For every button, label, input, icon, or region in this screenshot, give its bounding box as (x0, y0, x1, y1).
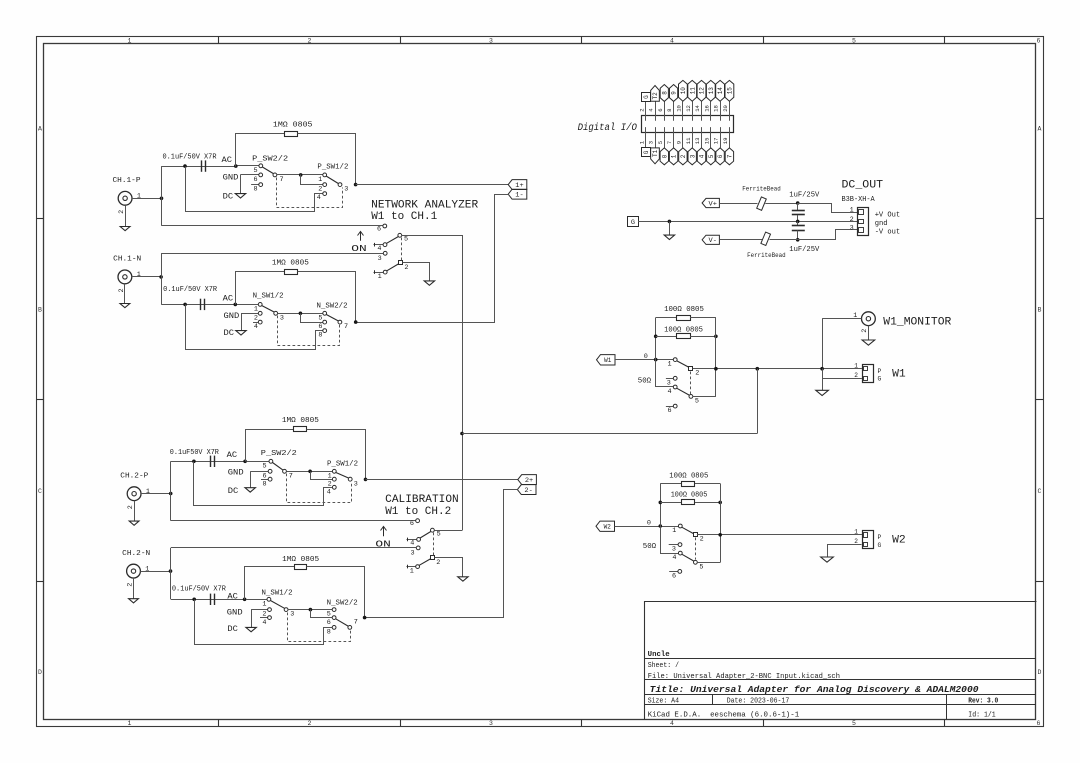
svg-text:2: 2 (127, 583, 135, 587)
svg-text:KiCad E.D.A. eeschema (6.0.6-: KiCad E.D.A. eeschema (6.0.6-1)-1 (648, 712, 800, 720)
svg-text:9: 9 (676, 141, 683, 144)
svg-text:T1: T1 (652, 149, 659, 157)
pin name AC (227, 451, 238, 460)
mechanical link ch2N switches (288, 613, 351, 642)
wire GND bracket ch2N (251, 610, 253, 628)
svg-text:W1 to CH.2: W1 to CH.2 (385, 506, 451, 518)
wire N common down (301, 314, 323, 323)
junction CH.2-P pin1 (169, 492, 173, 496)
svg-text:DC: DC (223, 192, 234, 201)
svg-text:0: 0 (647, 519, 651, 527)
svg-text:DC: DC (224, 329, 235, 338)
svg-text:5: 5 (437, 531, 441, 539)
svg-text:N_SW1/2: N_SW1/2 (253, 293, 284, 301)
wire W1 right rail (715, 318, 717, 397)
svg-text:5: 5 (404, 236, 408, 244)
svg-text:5: 5 (852, 720, 856, 727)
ground (862, 340, 875, 345)
svg-text:C: C (1038, 488, 1042, 495)
text NETWORK ANALYZER (371, 199, 478, 223)
pin name DC (223, 192, 234, 201)
svg-text:6: 6 (377, 226, 381, 234)
title block id (968, 712, 996, 720)
connector W2 body (854, 529, 905, 549)
svg-text:3: 3 (667, 379, 671, 387)
frame column labels (128, 37, 1041, 727)
svg-text:T2: T2 (652, 92, 659, 100)
wire GND bracket ch2P (250, 472, 252, 488)
svg-text:3: 3 (850, 224, 854, 232)
junction ch2N output (363, 616, 367, 620)
svg-text:2: 2 (700, 536, 704, 544)
ground (236, 331, 246, 335)
wire R8 right (695, 502, 720, 504)
connector J pin numbers bottom (638, 137, 729, 144)
svg-text:Id: 1/1: Id: 1/1 (968, 712, 996, 720)
wire SW_W2 pin5 to rail (697, 562, 720, 564)
ferrite bead FB1 (742, 186, 781, 211)
ground (235, 194, 245, 198)
capacitor C2 0.1uF/50V (201, 299, 205, 310)
svg-text:GND: GND (224, 312, 240, 321)
wire P_SW2 common to P_SW1 (277, 174, 323, 176)
svg-text:7: 7 (344, 323, 348, 331)
switch SW_NA ON (351, 224, 408, 281)
hierarchical label 3 (688, 148, 696, 165)
wire R5 right (690, 317, 716, 319)
wire N_SW1 common to N_SW2 (278, 313, 323, 315)
connector DC_OUT body (850, 207, 869, 236)
mechanical link ch2P switches (287, 474, 352, 503)
switch N_SW1/2 (237, 293, 284, 331)
switch P_SW1/2 (ch2) (327, 460, 358, 496)
title block rev (968, 698, 998, 706)
wire R8 left (660, 502, 681, 504)
svg-text:3: 3 (489, 720, 493, 727)
svg-text:50Ω: 50Ω (638, 377, 651, 385)
text CALIBRATION (385, 494, 459, 518)
svg-text:1MΩ 0805: 1MΩ 0805 (282, 417, 319, 425)
svg-text:6: 6 (657, 108, 664, 111)
junction CH.2-P AC pin (243, 460, 247, 464)
svg-text:1-: 1- (515, 192, 523, 200)
connector J pin stubs top (646, 101, 730, 120)
wire W1_MONITOR drop (822, 319, 824, 369)
wire W1 bus horizontal (462, 433, 757, 435)
ground (424, 281, 434, 285)
svg-text:AC: AC (227, 451, 238, 460)
svg-text:1: 1 (328, 472, 332, 480)
svg-text:3: 3 (290, 611, 294, 619)
pin name AC (222, 156, 233, 165)
svg-text:DC: DC (227, 625, 238, 634)
net label W2 (596, 521, 615, 531)
junction V+ at C5 (796, 201, 800, 205)
hierarchical label 12 (697, 80, 706, 101)
svg-text:2: 2 (854, 372, 858, 379)
svg-text:B: B (1038, 306, 1042, 313)
net label V- (702, 235, 719, 245)
ground (821, 557, 834, 562)
svg-text:0: 0 (661, 154, 668, 158)
value label 100Ω 0805 (R6) (664, 327, 703, 335)
svg-text:5: 5 (327, 610, 331, 618)
svg-text:4: 4 (672, 554, 676, 562)
resistor R4 1MΩ (295, 565, 307, 570)
wire R5 left (656, 317, 676, 319)
wire W1 pin2 leg (822, 378, 862, 380)
title block file (648, 673, 840, 681)
wire R1 feedback right (298, 134, 356, 185)
svg-text:C: C (38, 488, 42, 495)
hierarchical label 14 (716, 80, 725, 101)
svg-text:W1: W1 (892, 369, 906, 381)
svg-text:4: 4 (254, 323, 258, 331)
svg-text:1: 1 (853, 312, 857, 320)
connector W1 body (854, 362, 906, 382)
wire R6 right (690, 336, 716, 338)
svg-text:AC: AC (222, 156, 233, 165)
svg-text:NETWORK ANALYZER: NETWORK ANALYZER (371, 199, 478, 211)
svg-text:1MΩ 0805: 1MΩ 0805 (273, 122, 313, 130)
svg-text:2: 2 (850, 216, 854, 224)
hierarchical label 1 (669, 148, 677, 165)
net label 2+ (518, 475, 537, 485)
svg-text:11: 11 (689, 87, 696, 95)
wire CH.2-N AC row (171, 599, 245, 601)
svg-text:1: 1 (262, 600, 266, 608)
svg-text:4: 4 (670, 37, 674, 44)
svg-text:P_SW1/2: P_SW1/2 (327, 460, 358, 468)
svg-text:A: A (38, 125, 42, 132)
wire R1 feedback left (236, 134, 285, 167)
hierarchical label 5 (707, 148, 715, 165)
junction CH.2-N pre-cap (192, 598, 196, 602)
svg-text:13: 13 (694, 137, 701, 144)
junction P_SW1 output (354, 183, 358, 187)
wire CH.1-N top rail to ON switch (161, 253, 383, 255)
svg-text:DC_OUT: DC_OUT (842, 180, 884, 192)
wire CH.1-N raw bypass (186, 305, 323, 350)
svg-text:0: 0 (644, 353, 648, 361)
BNC connector W1_MONITOR (822, 312, 952, 340)
wire ch2P common to P_SW1 (286, 471, 332, 473)
junction V- at C6 (796, 238, 800, 242)
svg-text:ON: ON (351, 243, 366, 254)
svg-text:-V out: -V out (875, 229, 901, 237)
svg-text:W2: W2 (604, 524, 612, 531)
resistor R2 1MΩ (285, 270, 298, 275)
wire GND bracket N_SW1 (241, 314, 243, 331)
svg-text:2: 2 (680, 154, 687, 158)
svg-text:W2: W2 (892, 535, 906, 547)
value label 0.1uF50V X7R (170, 449, 219, 457)
svg-text:6: 6 (1037, 720, 1041, 727)
svg-text:+V Out: +V Out (875, 211, 901, 219)
svg-text:6: 6 (1037, 37, 1041, 44)
ground (664, 235, 674, 239)
svg-text:G: G (631, 219, 635, 227)
wire ground bus (638, 221, 858, 223)
svg-text:2-: 2- (524, 487, 532, 495)
wire R3 feedback left (246, 430, 294, 462)
value label 1uF/25V (789, 192, 820, 200)
wire W1 flag to network (615, 359, 673, 361)
svg-text:N_SW1/2: N_SW1/2 (262, 590, 293, 598)
junction ground stub (668, 220, 672, 224)
svg-text:G: G (878, 376, 882, 383)
title block frame (645, 602, 1037, 720)
wire R7 right (695, 483, 720, 485)
junction CH.1-P AC pin (234, 164, 238, 168)
svg-text:12: 12 (699, 87, 706, 95)
wire CH.2-P raw bypass (194, 462, 333, 506)
svg-text:1uF/25V: 1uF/25V (789, 246, 820, 254)
hierarchical label 2 (679, 148, 687, 165)
frame row ticks left (37, 219, 44, 582)
svg-text:19: 19 (722, 137, 729, 144)
svg-text:5: 5 (699, 563, 703, 571)
svg-text:2: 2 (638, 108, 645, 111)
svg-text:B: B (38, 306, 42, 313)
svg-text:3: 3 (489, 37, 493, 44)
svg-text:W1 to CH.1: W1 to CH.1 (371, 211, 437, 223)
ground (458, 577, 468, 581)
svg-text:FerriteBead: FerriteBead (747, 252, 786, 259)
svg-text:20: 20 (722, 104, 729, 111)
svg-text:G: G (643, 150, 650, 154)
svg-text:2: 2 (118, 210, 126, 214)
svg-text:100Ω 0805: 100Ω 0805 (669, 473, 708, 481)
resistor R3 1MΩ (294, 427, 307, 432)
svg-text:N_SW2/2: N_SW2/2 (317, 302, 348, 310)
value label 1MΩ 0805 (282, 417, 319, 425)
svg-text:2: 2 (127, 505, 135, 509)
wire ferrite to pin3 (770, 230, 858, 240)
value label 1uF/25V (789, 246, 820, 254)
hierarchical label T2 (651, 86, 660, 102)
svg-text:1: 1 (410, 567, 414, 575)
value label 100Ω 0805 (R7) (669, 473, 708, 481)
resistor R7 100Ω (682, 482, 695, 487)
svg-text:5: 5 (254, 167, 258, 175)
svg-text:8: 8 (327, 628, 331, 636)
junction N_SW2 output (354, 320, 358, 324)
wire SW_NA common to W1 bus (402, 236, 463, 531)
switch N_SW2/2 (317, 302, 349, 339)
svg-text:8: 8 (666, 108, 673, 111)
wire R7 left (660, 483, 681, 485)
hierarchical label 0 (660, 148, 668, 165)
junction ch2N common (309, 608, 313, 612)
svg-text:9: 9 (671, 91, 678, 95)
BNC connector CH.2-P (120, 473, 170, 522)
value label 0.1uF/50V X7R (172, 586, 226, 594)
capacitor C1 0.1uF/50V (202, 160, 206, 171)
switch P_SW2/2 (ch2) (247, 450, 297, 488)
wire R2 feedback right (298, 272, 356, 323)
svg-text:2: 2 (254, 314, 258, 322)
svg-text:5: 5 (695, 397, 699, 405)
pin name DC (227, 625, 238, 634)
hierarchical label G top (642, 93, 651, 102)
svg-text:1MΩ 0805: 1MΩ 0805 (272, 260, 309, 268)
hierarchical label 6 (716, 148, 724, 165)
svg-text:100Ω 0805: 100Ω 0805 (664, 306, 704, 314)
junction R8 right (718, 501, 722, 505)
svg-text:12: 12 (685, 105, 692, 112)
switch P_SW1/2 (317, 164, 349, 203)
junction CH.2-N pin1 (169, 569, 173, 573)
svg-text:18: 18 (713, 105, 720, 112)
wire CH.1-N AC row (161, 304, 235, 306)
junction N common (299, 312, 303, 316)
svg-text:DC: DC (228, 487, 239, 496)
pin name DC (228, 487, 239, 496)
svg-text:4: 4 (262, 619, 266, 627)
wire V+ to ferrite (719, 203, 757, 205)
value label 0.1uF/50V X7R (163, 286, 217, 294)
junction W1 bus (460, 432, 464, 436)
svg-text:1: 1 (318, 176, 322, 184)
switch SW_W1 50Ω (638, 358, 700, 415)
wire V- to ferrite (719, 239, 762, 241)
svg-text:14: 14 (717, 87, 724, 95)
pin name DC (224, 329, 235, 338)
pin number 0 (644, 353, 648, 361)
wire R6 left (656, 336, 676, 338)
ground (129, 599, 139, 603)
svg-text:7: 7 (280, 176, 284, 184)
connector J Digital I/O body (642, 116, 734, 133)
svg-text:1: 1 (854, 362, 858, 369)
svg-text:4: 4 (410, 540, 414, 548)
resistor R1 1MΩ (285, 132, 298, 137)
svg-text:File: Universal Adapter_2-BNC: File: Universal Adapter_2-BNC Input.kica… (648, 673, 840, 681)
ground (816, 390, 829, 395)
svg-text:6: 6 (717, 154, 724, 158)
svg-text:3: 3 (354, 481, 358, 489)
svg-text:8: 8 (318, 332, 322, 340)
svg-text:2: 2 (436, 559, 440, 567)
svg-text:1uF/25V: 1uF/25V (789, 192, 820, 200)
wire CH.2-P vertical rail (170, 461, 172, 520)
title block size (648, 697, 680, 705)
wire CH.1-N vertical rail (161, 253, 163, 304)
value label 100Ω 0805 (R5) (664, 306, 704, 314)
svg-text:1: 1 (254, 306, 258, 314)
junction R8 left (659, 501, 663, 505)
svg-text:6: 6 (327, 619, 331, 627)
wire CH.1-P vertical rail (161, 166, 163, 226)
hierarchical label 11 (688, 80, 697, 101)
pin name AC (223, 295, 234, 304)
svg-text:P_SW2/2: P_SW2/2 (252, 155, 288, 163)
svg-text:A: A (1038, 125, 1042, 132)
svg-text:1: 1 (128, 37, 132, 44)
wire SW_NA pole B to ground (403, 263, 430, 281)
svg-text:CALIBRATION: CALIBRATION (385, 494, 459, 506)
capacitor C3 0.1uF/50V (211, 456, 215, 467)
hierarchical label 15 (725, 80, 734, 101)
junction P common (299, 173, 303, 177)
svg-text:FerriteBead: FerriteBead (742, 186, 781, 193)
wire R4 feedback right (307, 567, 365, 618)
svg-text:11: 11 (685, 137, 692, 144)
junction W2 out rail (718, 533, 722, 537)
svg-text:0.1uF/50V X7R: 0.1uF/50V X7R (172, 586, 226, 594)
svg-text:6: 6 (668, 407, 672, 415)
svg-text:14: 14 (694, 104, 701, 111)
svg-text:1: 1 (137, 271, 141, 279)
ground (120, 304, 130, 308)
svg-text:5: 5 (263, 462, 267, 470)
switch N_SW1/2 (ch2) (246, 590, 294, 627)
pin name gnd (875, 220, 888, 228)
connector J pin numbers top (638, 104, 729, 111)
svg-text:CH.1-N: CH.1-N (113, 256, 141, 264)
frame column ticks bottom (219, 720, 945, 727)
junction R6 right (714, 335, 718, 339)
pin name GND (227, 608, 243, 617)
svg-text:1: 1 (672, 527, 676, 535)
wire P common down (301, 175, 323, 185)
svg-text:W1: W1 (604, 357, 612, 364)
wire W2 pin2 to ground (828, 545, 862, 557)
junction W1 monitor tap (820, 367, 824, 371)
svg-text:W1_MONITOR: W1_MONITOR (883, 316, 951, 328)
hierarchical label 10 (679, 80, 688, 101)
BNC connector CH.2-N (122, 550, 170, 599)
title block date (727, 697, 790, 705)
wire R2 feedback left (236, 272, 285, 305)
ground (245, 488, 255, 492)
capacitor C5 1uF/25V (792, 203, 805, 221)
resistor R8 100Ω (682, 500, 695, 505)
connector J pin stubs bottom (646, 127, 730, 148)
svg-text:7: 7 (727, 154, 734, 158)
junction CH.1-N pin1 (159, 275, 163, 279)
wire ch2P common down (311, 472, 333, 480)
wire SW_CAL pole B to ground (435, 558, 463, 577)
junction CH.2-P pre-cap (192, 460, 196, 464)
ground (246, 627, 256, 631)
title block sheet (648, 662, 679, 670)
svg-text:15: 15 (703, 137, 710, 144)
svg-text:gnd: gnd (875, 220, 888, 228)
svg-text:13: 13 (708, 87, 715, 95)
svg-text:5: 5 (852, 37, 856, 44)
svg-text:2: 2 (118, 288, 126, 292)
wire to net 2+ (366, 479, 518, 481)
net label W1 (597, 355, 616, 365)
svg-text:Size: A4: Size: A4 (648, 697, 680, 705)
switch SW_CAL ON (375, 519, 440, 576)
svg-text:7: 7 (289, 473, 293, 481)
svg-text:1: 1 (854, 529, 858, 536)
junction W1 input (654, 358, 658, 362)
BNC connector CH.1-P (113, 177, 162, 226)
wire GND bracket P_SW2 (240, 175, 242, 194)
svg-text:Digital I/O: Digital I/O (578, 122, 638, 134)
svg-text:1: 1 (128, 720, 132, 727)
resistor R6 100Ω (677, 334, 691, 339)
wire CH.1-P raw bypass (186, 167, 323, 212)
svg-text:6: 6 (410, 520, 414, 528)
svg-text:6: 6 (254, 176, 258, 184)
resistor R5 100Ω (677, 316, 691, 321)
hierarchical label 9 (670, 85, 678, 102)
